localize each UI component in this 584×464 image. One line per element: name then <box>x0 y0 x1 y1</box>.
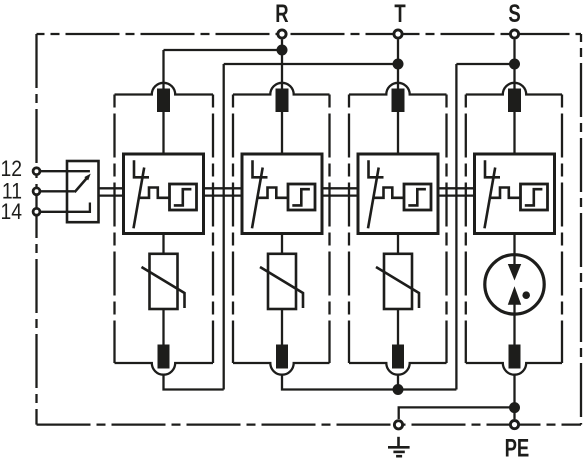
gas discharge tube circle (path 4) <box>485 255 544 314</box>
wire: path 1 bottom rail with bump <box>115 363 214 375</box>
varistor (path 3) <box>384 254 412 309</box>
wire: signal bus upper (FM to path 1) <box>99 187 124 189</box>
triggered spark gap box (path 1) <box>124 154 204 234</box>
spark gap icon: pulse link (path 1) <box>139 188 170 198</box>
wire: path 2 bottom to S crossing <box>282 375 456 390</box>
wire: spark gap to gas discharge tube (path 4) <box>513 234 515 255</box>
junction node on T <box>393 59 404 70</box>
wire: disconnector to spark gap (path 1) <box>162 112 164 154</box>
protection path 2 <box>233 83 330 375</box>
wire: disconnector to spark gap (path 3) <box>397 112 399 154</box>
wire: path 4 top rail with bump <box>466 83 562 95</box>
wire: path 4 bottom drop to PE node <box>513 375 515 419</box>
spark gap icon: blade (path 1) <box>134 168 145 229</box>
spark gap icon: pulse link (path 2) <box>257 188 288 198</box>
disconnector bottom (path 4) <box>509 345 521 369</box>
triggered spark gap box (path 3) <box>358 154 438 234</box>
spark gap icon: blade (path 4) <box>485 168 496 229</box>
gas discharge tube dot <box>522 291 530 299</box>
gas discharge tube arrow up <box>508 286 521 305</box>
wire: signal bus upper (path 3 to 4) <box>438 187 476 189</box>
disconnector top (path 3) <box>392 89 405 113</box>
wire: signal bus upper (path 1 to 2) <box>204 187 243 189</box>
path 2 module outline right (dashed) <box>328 95 330 364</box>
disconnector bottom (path 1) <box>158 345 170 369</box>
path 3 module outline right (dashed) <box>445 95 447 364</box>
path 3 module outline left (dashed) <box>348 95 350 364</box>
varistor (path 2) <box>268 254 296 309</box>
wire: T vertical crossing (x=223.7) <box>223 64 225 390</box>
wire: path 3 bottom rail with bump <box>349 363 447 375</box>
spark gap icon: blade (path 2) <box>252 168 263 229</box>
spark gap icon: contact post (path 2) <box>253 160 268 177</box>
wire: signal bus lower (path 1 to 2) <box>204 194 243 196</box>
wire: spark gap to varistor (path 1) <box>162 234 164 254</box>
spark gap icon: contact post (path 1) <box>134 160 149 177</box>
path 4 module outline right (dashed) <box>561 95 563 364</box>
varistor diagonal (path 1) <box>142 267 185 308</box>
spark gap icon: pulse link (path 3) <box>373 188 404 198</box>
wire: terminal T drop to path 3 <box>397 40 399 89</box>
disconnector top (path 2) <box>276 89 289 113</box>
varistor (path 1) <box>150 254 178 309</box>
wire: disconnector to spark gap (path 2) <box>281 112 283 154</box>
svg-text:12: 12 <box>0 157 22 181</box>
svg-text:S: S <box>508 0 520 27</box>
terminal R <box>278 30 286 38</box>
spark gap icon: contact post (path 3) <box>369 160 384 177</box>
wire: signal bus lower (path 2 to 3) <box>322 194 359 196</box>
wire: path 2 top rail with bump <box>233 83 330 95</box>
terminal T <box>394 30 402 38</box>
varistor diagonal (path 3) <box>376 267 419 308</box>
gas discharge tube arrow down <box>508 264 521 281</box>
terminal 14 <box>33 208 40 215</box>
wire: T bus (y=64) <box>224 63 398 65</box>
svg-text:T: T <box>394 0 406 27</box>
wire: contact 12 lead <box>40 170 90 172</box>
wire: varistor to disconnector (path 1) <box>162 309 164 345</box>
spark gap icon: trigger box (path 1) <box>170 184 197 210</box>
wire: path 4 bottom rail with bump <box>466 363 562 375</box>
spark gap icon: step curve (path 2) <box>292 189 310 205</box>
path 1 module outline left (dashed) <box>113 95 115 364</box>
wire: R feed to path 1 (y=50) <box>164 49 283 51</box>
path 4 module outline left (dashed) <box>465 95 467 364</box>
terminal S <box>510 30 518 38</box>
wire: S vertical crossing (x=456.4) <box>455 64 457 390</box>
varistor diagonal (path 2) <box>260 267 303 308</box>
wire: terminal R drop to path 2 <box>281 40 283 89</box>
spark gap icon: pulse link (path 4) <box>490 188 521 198</box>
spark gap icon: step curve (path 1) <box>174 189 192 205</box>
spark gap icon: trigger box (path 2) <box>288 184 315 210</box>
remote signalling contact FM (changeover switch) <box>67 161 99 222</box>
wire: signal bus lower (FM to path 1) <box>99 194 124 196</box>
spark gap icon: trigger box (path 3) <box>404 184 431 210</box>
spark gap icon: trigger box (path 4) <box>521 184 548 210</box>
wire: contact 11 lead <box>40 190 75 192</box>
wire: signal bus upper (path 2 to 3) <box>322 187 359 189</box>
protection path 1 <box>115 83 214 375</box>
disconnector top (path 1) <box>157 89 170 113</box>
gas discharge tube lead out <box>513 304 515 314</box>
disconnector bottom (path 2) <box>276 345 288 369</box>
gas discharge tube lead in <box>513 255 515 265</box>
wire: path 3 top rail with bump <box>349 83 447 95</box>
svg-text:R: R <box>275 0 288 27</box>
wire: path 1 top drop <box>162 50 164 89</box>
svg-text:14: 14 <box>0 200 22 224</box>
wire: signal bus lower (path 3 to 4) <box>438 194 476 196</box>
path 1 module outline right (dashed) <box>212 95 214 364</box>
wire: spark gap to varistor (path 2) <box>281 234 283 254</box>
terminal 12 <box>33 168 40 175</box>
spark gap icon: step curve (path 3) <box>408 189 426 205</box>
wire: S bus (y=64) <box>456 63 514 65</box>
spark gap icon: contact post (path 4) <box>485 160 500 177</box>
spark gap icon: blade (path 3) <box>368 168 379 229</box>
junction node on S <box>509 59 520 70</box>
device enclosure (dash-dot border) <box>37 34 582 425</box>
junction node paths 2+3 bottom <box>393 384 404 395</box>
terminal 11 <box>33 188 40 195</box>
wire: path 3 bottom drop <box>397 375 399 390</box>
wire: path 1 bottom to T crossing <box>164 375 224 390</box>
wire: PE equipotential run (y=407.4) <box>399 407 515 419</box>
protection path 4 <box>466 83 562 375</box>
triggered spark gap box (path 4) <box>475 154 555 234</box>
wire: contact 14 lead <box>40 203 90 212</box>
spark gap icon: step curve (path 4) <box>525 189 543 205</box>
protection path 3 <box>349 83 447 375</box>
wire: varistor to disconnector (path 3) <box>397 309 399 345</box>
triggered spark gap box (path 2) <box>242 154 322 234</box>
wire: varistor to disconnector (path 2) <box>281 309 283 345</box>
wire: path 2 bottom rail with bump <box>233 363 330 375</box>
wire: disconnector to spark gap (path 4) <box>513 112 515 154</box>
path 2 module outline left (dashed) <box>232 95 234 364</box>
disconnector bottom (path 3) <box>392 345 404 369</box>
wire: spark gap to varistor (path 3) <box>397 234 399 254</box>
ground symbol <box>388 437 410 456</box>
junction node PE <box>509 402 520 413</box>
terminal ground <box>394 421 402 429</box>
disconnector top (path 4) <box>508 89 521 113</box>
terminal PE <box>510 421 518 429</box>
junction node on R <box>277 45 288 56</box>
wire: path 1 top rail with bump <box>115 83 214 95</box>
svg-text:PE: PE <box>505 434 530 462</box>
wire: terminal S drop to path 4 <box>513 40 515 89</box>
wire: gas discharge tube to disconnector (path 4) <box>513 314 515 344</box>
